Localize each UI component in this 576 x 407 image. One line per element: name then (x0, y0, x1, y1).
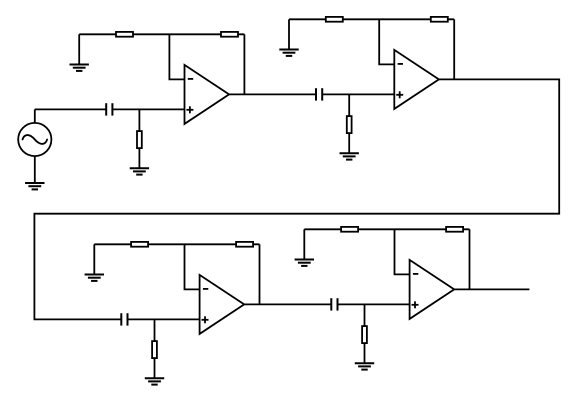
wire (454, 288, 529, 290)
op-amp U3 (200, 275, 245, 334)
resistor R1 (116, 32, 133, 37)
wire (244, 303, 331, 305)
wire (322, 93, 394, 95)
op-amp U4 (410, 260, 455, 319)
resistor R10 (341, 227, 358, 232)
wire (94, 243, 259, 245)
wire (243, 34, 245, 94)
resistor R3 (137, 131, 142, 148)
capacitor C4 (331, 298, 337, 310)
resistor R7 (131, 242, 148, 247)
ground (145, 358, 164, 385)
resistor R11 (446, 227, 463, 232)
ground (295, 229, 314, 266)
resistor R12 (362, 326, 367, 343)
wire (364, 304, 366, 326)
ground (355, 343, 374, 370)
ac source V1 (18, 123, 51, 156)
wire (338, 303, 410, 305)
op-amp U1 (185, 65, 230, 124)
ground (279, 19, 298, 56)
resistor R9 (152, 341, 157, 358)
resistor R5 (431, 17, 448, 22)
ground (340, 133, 359, 160)
wire (154, 319, 156, 341)
resistor R8 (236, 242, 253, 247)
wire (169, 34, 184, 79)
resistor R4 (326, 17, 343, 22)
wire (453, 19, 455, 79)
op-amp U2 (394, 50, 439, 109)
wire (469, 229, 471, 289)
capacitor C1 (106, 103, 112, 115)
wire (79, 33, 244, 35)
ground (25, 156, 44, 189)
wire (304, 228, 469, 230)
wire (379, 19, 394, 64)
wire (348, 94, 350, 116)
wire (120, 318, 122, 320)
wire (289, 18, 454, 20)
wire (259, 244, 261, 304)
wire (138, 109, 140, 131)
wire (330, 303, 332, 305)
capacitor C3 (121, 313, 127, 325)
wire (229, 93, 316, 95)
capacitor C2 (316, 88, 322, 100)
wire (395, 229, 410, 274)
wire (35, 108, 106, 110)
ground (85, 244, 104, 281)
wire (315, 93, 317, 95)
wire (185, 244, 200, 289)
wire (112, 108, 184, 110)
resistor R6 (347, 116, 352, 133)
ground (70, 34, 89, 71)
wire (34, 109, 36, 123)
wire (128, 318, 200, 320)
wire (34, 79, 559, 319)
resistor R2 (221, 32, 238, 37)
ground (130, 148, 149, 175)
